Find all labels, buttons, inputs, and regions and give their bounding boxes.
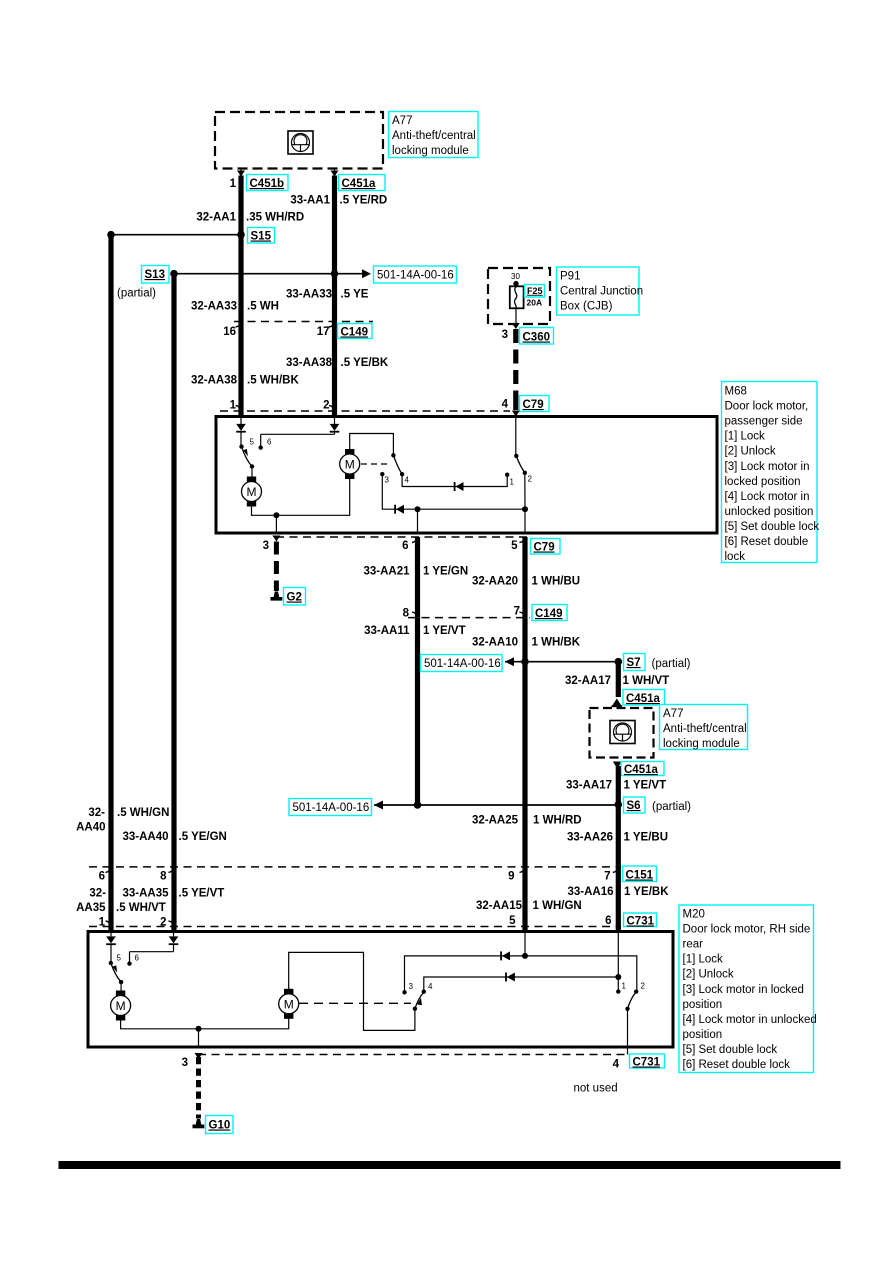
svg-text:F25: F25 <box>527 286 543 296</box>
svg-text:5: 5 <box>250 438 255 447</box>
svg-text:Anti-theft/central: Anti-theft/central <box>392 130 476 142</box>
svg-text:32-AA38: 32-AA38 <box>191 375 238 387</box>
svg-text:Box (CJB): Box (CJB) <box>560 301 613 313</box>
splice S7 dot <box>615 658 623 666</box>
label C151 <box>623 866 657 882</box>
svg-text:1: 1 <box>510 478 515 487</box>
M20 motor 1 <box>120 982 122 991</box>
module M66 door lock motor passenger side box <box>216 417 717 534</box>
svg-text:3: 3 <box>263 540 269 552</box>
label C149 (upper) <box>338 324 373 339</box>
svg-text:33-AA26: 33-AA26 <box>567 832 613 844</box>
svg-text:(partial): (partial) <box>117 288 156 300</box>
svg-text:.5 YE/GN: .5 YE/GN <box>179 831 227 843</box>
M20 junction dot to pin 3 <box>196 1026 202 1032</box>
svg-text:[3] Lock motor in locked: [3] Lock motor in locked <box>683 984 804 996</box>
svg-text:3: 3 <box>385 476 390 485</box>
svg-text:M: M <box>247 485 257 499</box>
svg-text:7: 7 <box>514 606 520 618</box>
svg-text:1 WH/GN: 1 WH/GN <box>533 900 582 912</box>
arrow into C451b <box>237 171 245 177</box>
svg-text:6: 6 <box>99 871 105 883</box>
M66 motor 2 <box>346 450 354 455</box>
svg-text:6: 6 <box>402 540 408 552</box>
svg-text:not used: not used <box>574 1083 618 1095</box>
svg-text:S6: S6 <box>627 800 641 812</box>
wire from S15 down (thick vertical, left rail) <box>108 235 113 932</box>
svg-text:Central Junction: Central Junction <box>560 286 643 298</box>
svg-text:C731: C731 <box>633 1057 661 1069</box>
svg-text:[2] Unlock: [2] Unlock <box>725 446 776 458</box>
svg-text:C451a: C451a <box>342 178 376 190</box>
svg-text:4: 4 <box>405 476 410 485</box>
wire 32-AA20 thick vertical <box>522 537 527 618</box>
svg-text:M20: M20 <box>683 909 705 921</box>
svg-text:.5 YE/RD: .5 YE/RD <box>340 195 388 207</box>
svg-text:[4] Lock motor in unlocked: [4] Lock motor in unlocked <box>683 1014 817 1026</box>
wire 32-AA17 thick vertical <box>616 662 621 697</box>
svg-text:C149: C149 <box>341 327 369 339</box>
svg-text:A77: A77 <box>663 708 683 720</box>
svg-text:1: 1 <box>622 982 627 991</box>
module A77 (lower) dashed box <box>590 708 654 758</box>
M20 line1 from contact 3 to contact 2 with diode <box>405 956 637 992</box>
svg-text:5: 5 <box>511 540 518 552</box>
off-page reference 501-14A-00-16 (top) <box>374 266 457 283</box>
junction dot on 32-AA10 wire <box>521 658 529 666</box>
M20 switch A contact 6 dot and wire <box>127 961 131 965</box>
wire 33-AA21 thick vertical <box>415 537 420 618</box>
svg-text:(partial): (partial) <box>652 658 691 670</box>
svg-text:4: 4 <box>428 982 433 991</box>
svg-text:C451a: C451a <box>626 693 660 705</box>
wire below fuse to C360 <box>515 308 517 323</box>
M20 pin6 wire down to contact 1 <box>617 932 619 992</box>
svg-text:6: 6 <box>135 954 140 963</box>
svg-text:1 YE/BK: 1 YE/BK <box>624 886 669 898</box>
splice S13 label <box>142 266 170 284</box>
svg-text:AA40: AA40 <box>76 822 105 834</box>
svg-text:C360: C360 <box>523 332 551 344</box>
svg-text:5: 5 <box>509 915 516 927</box>
svg-text:32-AA33: 32-AA33 <box>191 301 237 313</box>
label A77 (lower) <box>660 705 748 750</box>
label G10 <box>206 1116 234 1134</box>
svg-text:[5] Set double lock: [5] Set double lock <box>725 521 820 533</box>
svg-text:Door lock motor,: Door lock motor, <box>725 401 809 413</box>
svg-text:8: 8 <box>160 871 167 883</box>
M66 contact 4 wire to contact 1 with diode <box>402 474 507 486</box>
M66 switch B pivot blade contacts <box>391 453 395 457</box>
svg-text:33-AA35: 33-AA35 <box>122 888 169 900</box>
M20 diode at pin 1 <box>110 932 112 937</box>
hook pin 1 <box>236 406 241 411</box>
module A77 anti-theft/central locking module (top) dashed box <box>215 112 383 169</box>
svg-text:1 YE/VT: 1 YE/VT <box>624 780 667 792</box>
M20 switch C contact 2 and blade <box>634 989 638 993</box>
svg-text:S7: S7 <box>627 657 641 669</box>
svg-text:32-AA25: 32-AA25 <box>472 815 519 827</box>
wire 33-AA11 thick vertical <box>415 618 420 805</box>
svg-text:4: 4 <box>613 1059 620 1071</box>
svg-text:C151: C151 <box>626 870 654 882</box>
arrow up into A77 lower <box>612 699 621 706</box>
svg-text:33-AA1: 33-AA1 <box>290 195 330 207</box>
M66 mechanical link dashed <box>361 463 390 465</box>
arrow into M66 <box>513 404 518 410</box>
splice S15 horizontal wire <box>111 234 241 236</box>
svg-text:.35 WH/RD: .35 WH/RD <box>246 212 304 224</box>
svg-text:3: 3 <box>502 329 508 341</box>
wire 32-AA1 (C451b leg, thick vertical) <box>238 176 243 417</box>
svg-text:1 WH/BK: 1 WH/BK <box>532 637 581 649</box>
svg-text:[4] Lock motor in: [4] Lock motor in <box>725 491 810 503</box>
svg-text:9: 9 <box>508 871 514 883</box>
junction dot left of S15 wire <box>107 231 115 239</box>
svg-text:M: M <box>345 458 355 472</box>
svg-text:8: 8 <box>403 608 410 620</box>
splice S15 dot <box>237 231 245 239</box>
S6 horizontal wire <box>374 804 618 806</box>
hook pin 2 <box>329 406 334 411</box>
M66 diode on 4-1 wire <box>456 482 464 491</box>
svg-text:2: 2 <box>528 475 533 484</box>
M66 diode at pin 1 <box>240 416 242 424</box>
junction dot on 33-AA33 wire <box>331 270 339 278</box>
svg-text:C149: C149 <box>535 608 563 620</box>
M66 switch A contact 6 dot and wire <box>259 445 263 449</box>
M66 diode on 3 wire <box>396 505 404 514</box>
connector C79 top dashed line <box>220 410 510 412</box>
svg-text:1: 1 <box>230 178 237 190</box>
svg-text:33-AA33: 33-AA33 <box>286 289 332 301</box>
svg-text:33-AA40: 33-AA40 <box>122 831 168 843</box>
svg-text:3: 3 <box>182 1057 188 1069</box>
svg-text:G10: G10 <box>209 1120 231 1132</box>
splice S13 dot <box>170 270 178 278</box>
P91 Central Junction Box dashed box <box>488 268 550 324</box>
ground symbol G2 <box>274 592 280 598</box>
svg-text:32-AA17: 32-AA17 <box>565 675 611 687</box>
svg-text:1 WH/BU: 1 WH/BU <box>532 576 581 588</box>
hook pin 16 <box>236 322 241 327</box>
connector C451a (out of A77 lower) <box>621 762 664 776</box>
svg-text:32-: 32- <box>88 807 105 819</box>
junction dot at 33-AA11 end <box>414 801 422 809</box>
svg-text:[6] Reset double: [6] Reset double <box>725 536 809 548</box>
off-page reference 501-14A-00-16 (lower) <box>289 799 372 816</box>
svg-text:S15: S15 <box>251 231 272 243</box>
svg-text:[1] Lock: [1] Lock <box>683 954 724 966</box>
label F25 <box>525 285 545 298</box>
M20 mechanical link dashed <box>299 1002 411 1004</box>
svg-text:unlocked position: unlocked position <box>725 506 814 518</box>
svg-text:[1] Lock: [1] Lock <box>725 431 766 443</box>
M20 switch A pivot and blade <box>110 944 112 963</box>
svg-text:M: M <box>116 999 126 1013</box>
M20 junction dot pin5 wire on line1 <box>522 953 528 959</box>
M66 contact 3 wire to pin6/pin5 junctions with diode <box>382 474 525 509</box>
M66 switch C contact 1 <box>505 473 509 477</box>
M66 junction dot above pin 6 <box>415 506 421 512</box>
svg-text:S13: S13 <box>145 269 165 281</box>
off-page reference 501-14A-00-16 (middle) <box>421 655 503 672</box>
label G2 <box>284 588 306 606</box>
M66 diode at pin 2 <box>334 416 336 424</box>
M66 switch A pivot and blade <box>240 432 242 447</box>
svg-text:[5] Set double lock: [5] Set double lock <box>683 1044 778 1056</box>
M66 junction dot to pin 3 <box>273 512 279 518</box>
connector C149 lower dashed line <box>408 617 530 619</box>
svg-text:30: 30 <box>511 272 520 281</box>
svg-text:2: 2 <box>323 400 329 412</box>
wire 33-AA1 (C451a leg, thick vertical) <box>332 176 337 417</box>
svg-text:3: 3 <box>409 982 414 991</box>
M66 motor 1 to junction wire <box>252 479 350 516</box>
svg-text:.5 WH/GN: .5 WH/GN <box>117 807 169 819</box>
svg-text:7: 7 <box>604 871 610 883</box>
M20 motor 1 to junction wire <box>121 1018 289 1029</box>
A77 lock icon symbol (lower) <box>610 721 635 744</box>
svg-text:33-AA17: 33-AA17 <box>566 780 612 792</box>
label C149 (lower) <box>532 605 567 621</box>
connector C79 bottom dashed line <box>276 536 529 538</box>
svg-text:1 YE/GN: 1 YE/GN <box>423 566 468 578</box>
svg-text:2: 2 <box>641 982 646 991</box>
ground wire to G10 (thick dashed) <box>196 1057 201 1119</box>
label C79 (bottom) <box>531 539 561 555</box>
svg-text:position: position <box>683 999 723 1011</box>
fuse F25 squiggle <box>514 287 516 309</box>
svg-text:(partial): (partial) <box>652 801 691 813</box>
M20 diode at pin 2 <box>173 932 175 937</box>
arrow out of A77 lower <box>613 762 622 769</box>
M66 motor 1 <box>251 466 253 477</box>
svg-text:16: 16 <box>223 326 236 338</box>
svg-text:32-AA15: 32-AA15 <box>476 900 523 912</box>
svg-text:A77: A77 <box>392 115 412 127</box>
svg-text:[3] Lock motor in: [3] Lock motor in <box>725 461 810 473</box>
svg-text:Door lock motor, RH side: Door lock motor, RH side <box>683 924 811 936</box>
module M20 door lock motor RH side rear box <box>88 932 673 1048</box>
svg-text:.5 WH/BK: .5 WH/BK <box>247 375 299 387</box>
fuse F25 rectangle <box>510 286 524 308</box>
label S7 <box>624 654 646 671</box>
svg-text:[2] Unlock: [2] Unlock <box>683 969 734 981</box>
connector C451a (top) <box>339 175 386 191</box>
svg-text:.5 YE/BK: .5 YE/BK <box>341 357 389 369</box>
M66 motor 2 top wire to switch B <box>350 434 394 456</box>
splice S6 dot <box>615 801 623 809</box>
arrow into M20 pin 6 <box>614 927 622 933</box>
power feed wire C360 to C79 (thick dashed) <box>513 329 518 404</box>
svg-text:33-AA11: 33-AA11 <box>364 625 410 637</box>
svg-text:lock: lock <box>725 551 746 563</box>
svg-text:.5 YE: .5 YE <box>341 289 369 301</box>
svg-text:32-AA10: 32-AA10 <box>472 637 518 649</box>
svg-text:1 WH/VT: 1 WH/VT <box>623 675 670 687</box>
svg-text:6: 6 <box>605 915 611 927</box>
S7 horizontal wire <box>505 661 618 663</box>
connector C731 dashed line <box>89 926 621 928</box>
A77 lock icon symbol (top) <box>288 131 313 154</box>
svg-text:AA35: AA35 <box>76 902 106 914</box>
svg-text:locking module: locking module <box>392 145 469 157</box>
svg-text:G2: G2 <box>287 592 302 604</box>
M20 motor 2 top wire loop to switch B <box>289 952 415 1030</box>
arrow into C451a leg <box>331 171 339 177</box>
arrow into M20 pin 5 <box>521 927 529 933</box>
svg-text:.5 WH: .5 WH <box>247 301 279 313</box>
svg-text:M68: M68 <box>725 386 747 398</box>
svg-text:20A: 20A <box>527 298 543 308</box>
svg-text:2: 2 <box>160 917 166 929</box>
junction dot atop fuse <box>513 281 518 286</box>
svg-text:C79: C79 <box>534 542 555 554</box>
S13 horizontal wire to off-page 501-14A-00-16 <box>174 273 362 275</box>
svg-text:33-AA38: 33-AA38 <box>286 357 333 369</box>
ground symbol G10 <box>196 1119 202 1125</box>
svg-text:33-AA16: 33-AA16 <box>567 886 613 898</box>
connector C451a (into A77 lower) <box>623 690 665 706</box>
connector C360 <box>520 328 554 345</box>
svg-text:position: position <box>683 1029 723 1041</box>
label S15 <box>248 228 275 244</box>
arrow to 501-14A-00-16 (top) <box>362 269 371 278</box>
svg-text:.5 YE/VT: .5 YE/VT <box>179 888 225 900</box>
connector C79 (top) <box>520 396 550 412</box>
hook pin 17 <box>329 322 334 327</box>
M66 switch C pivot blade <box>515 416 517 456</box>
svg-text:.5 WH/VT: .5 WH/VT <box>116 902 166 914</box>
svg-text:501-14A-00-16: 501-14A-00-16 <box>293 802 370 814</box>
separator bar <box>59 1162 840 1169</box>
M20 line2 from contact 4 to pin6 wire with diode <box>424 977 619 992</box>
M20 switch B pivot blade contacts <box>413 1007 417 1011</box>
connector C451b <box>247 175 289 191</box>
svg-text:passenger side: passenger side <box>725 416 803 428</box>
svg-text:32-AA1: 32-AA1 <box>196 212 236 224</box>
wire 32-AA10 thick vertical <box>522 618 527 932</box>
label C731 (lower) <box>630 1054 665 1068</box>
svg-text:C451a: C451a <box>624 764 658 776</box>
svg-text:C79: C79 <box>523 399 544 411</box>
svg-text:5: 5 <box>117 954 122 963</box>
svg-text:P91: P91 <box>560 271 580 283</box>
svg-text:rear: rear <box>683 939 704 951</box>
svg-text:17: 17 <box>317 326 330 338</box>
label S6 <box>624 797 646 813</box>
arrow into C360 <box>512 323 520 329</box>
svg-text:1 YE/VT: 1 YE/VT <box>423 625 466 637</box>
ground wire to G2 (thick dashed) <box>274 542 279 592</box>
M20 diode on line1 <box>502 951 510 960</box>
svg-text:1 YE/BU: 1 YE/BU <box>624 832 669 844</box>
M20 diode on line2 <box>507 973 515 982</box>
svg-text:locking module: locking module <box>663 738 740 750</box>
svg-text:C731: C731 <box>627 916 655 928</box>
label M20 door lock motor RH side rear <box>679 905 814 1073</box>
svg-text:Anti-theft/central: Anti-theft/central <box>663 723 747 735</box>
svg-text:32-: 32- <box>89 888 106 900</box>
label P91 Central Junction Box (CJB) <box>557 267 640 315</box>
arrow to 501 lower <box>374 801 383 810</box>
svg-text:6: 6 <box>267 438 272 447</box>
M20 bottom connector dashed line <box>198 1054 628 1056</box>
M20 junction dot pin6 wire on line2 <box>615 974 621 980</box>
svg-text:32-AA20: 32-AA20 <box>472 576 518 588</box>
M20 motor 2 <box>285 989 293 994</box>
M20 pivot wire down to pin 4 <box>627 1009 629 1055</box>
svg-text:501-14A-00-16: 501-14A-00-16 <box>377 270 454 282</box>
svg-text:4: 4 <box>502 399 509 411</box>
connector C151 dashed line <box>89 866 621 868</box>
label A77 (top) <box>389 112 479 158</box>
label M68 door lock motor passenger side <box>722 382 818 563</box>
svg-text:locked position: locked position <box>725 476 801 488</box>
svg-text:501-14A-00-16: 501-14A-00-16 <box>424 658 501 670</box>
svg-text:C451b: C451b <box>250 178 285 190</box>
svg-text:33-AA21: 33-AA21 <box>363 566 410 578</box>
svg-text:[6] Reset double lock: [6] Reset double lock <box>683 1059 791 1071</box>
svg-text:M: M <box>284 997 294 1011</box>
M66 junction dot above pin 5 <box>522 506 528 512</box>
wire from S13 down (thick vertical) <box>171 274 176 932</box>
wire 33-AA17 thick vertical <box>616 766 621 932</box>
arrow to 501 middle <box>505 657 514 666</box>
svg-text:1: 1 <box>99 917 106 929</box>
connector C149 dashed line (upper) <box>234 321 373 323</box>
label C731 (upper) <box>624 913 657 927</box>
svg-text:1 WH/RD: 1 WH/RD <box>533 815 582 827</box>
